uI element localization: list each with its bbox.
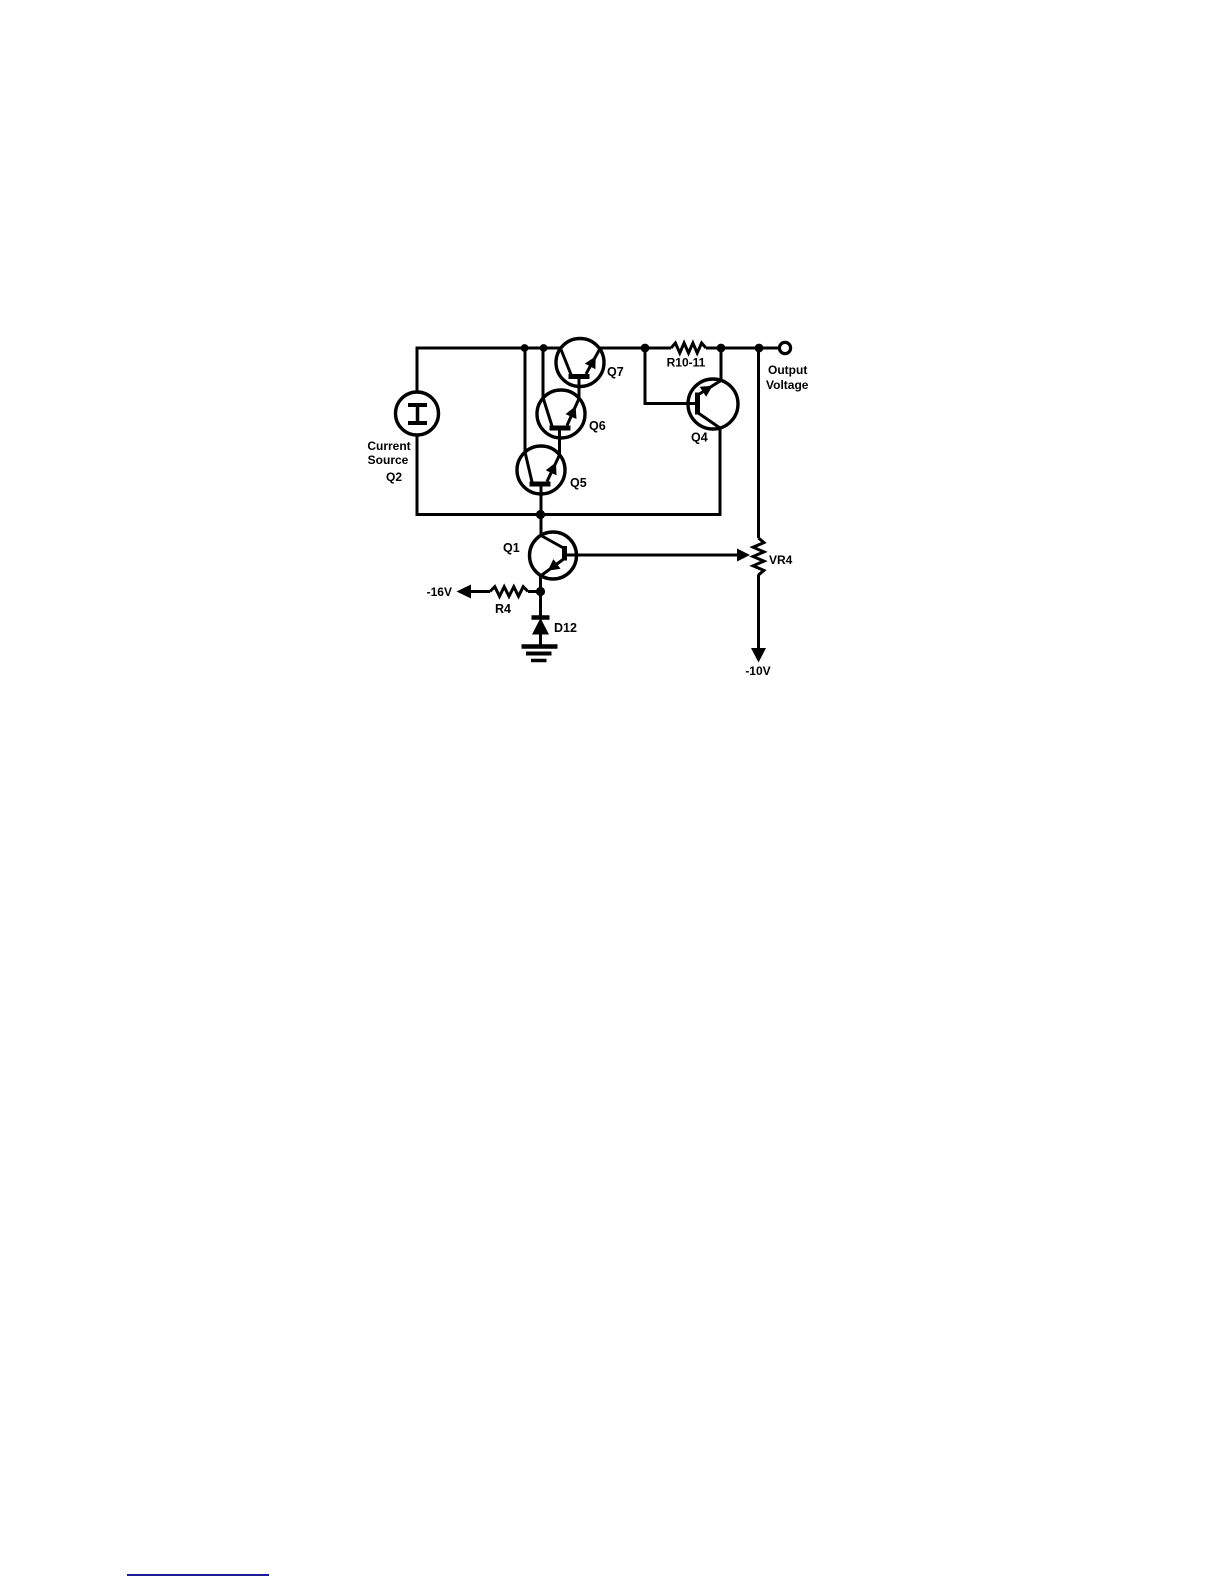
- wiper arrow: [737, 549, 750, 562]
- svg-text:-10V: -10V: [745, 664, 770, 678]
- wire vertical to Q5 collector: [524, 348, 527, 453]
- svg-text:Q6: Q6: [589, 419, 606, 433]
- wire Q4 emitter lead: [720, 348, 723, 381]
- node junction bottom bus / Q5 base: [536, 510, 545, 519]
- svg-text:VR4: VR4: [769, 553, 793, 567]
- power -10V arrow: [745, 648, 770, 678]
- power -16V arrow: [427, 585, 471, 600]
- svg-text:Q4: Q4: [691, 431, 708, 445]
- svg-text:Q5: Q5: [570, 476, 587, 490]
- wire Q5 base lead to bottom bus and Q1: [540, 484, 543, 536]
- current source Q2: [396, 392, 439, 435]
- svg-text:R4: R4: [495, 602, 511, 616]
- output terminal: [779, 342, 790, 353]
- ground: [522, 647, 558, 661]
- svg-text:Voltage: Voltage: [766, 378, 809, 392]
- transistor Q7: [556, 339, 624, 387]
- svg-text:D12: D12: [554, 621, 577, 635]
- resistor R4: [470, 587, 541, 616]
- node junction at R10-11 left: [641, 344, 650, 353]
- node junction top-left 2: [540, 344, 548, 352]
- svg-text:-16V: -16V: [427, 585, 452, 599]
- wire Q7 base lead: [578, 377, 581, 399]
- label Current Source Q2: [367, 439, 410, 484]
- wire D12 top lead: [539, 592, 542, 618]
- wire bottom bus: [416, 513, 721, 516]
- wire current source bottom lead: [416, 435, 419, 516]
- node junction at R10-11 right: [717, 344, 726, 353]
- wire Q4 collector lead: [719, 427, 722, 516]
- wire Q1 emitter lead: [539, 575, 542, 593]
- transistor Q5: [517, 446, 587, 494]
- wire D12 bottom lead: [539, 634, 542, 646]
- wire VR4 top lead: [757, 348, 760, 538]
- wire Q6 base lead: [558, 428, 561, 456]
- transistor Q1: [503, 532, 577, 579]
- wire top bus segment to output: [706, 347, 780, 350]
- transistor Q6: [537, 390, 606, 438]
- svg-text:Source: Source: [368, 453, 409, 467]
- wire VR4 bottom lead: [757, 575, 760, 650]
- label Output Voltage: [766, 363, 809, 392]
- wire Q1 base to VR4 wiper: [564, 554, 741, 557]
- resistor R10-11: [667, 343, 706, 370]
- svg-text:Q7: Q7: [607, 365, 624, 379]
- svg-text:R10-11: R10-11: [667, 356, 706, 370]
- transistor Q4: [688, 379, 738, 445]
- wire vertical to Q6 collector: [542, 348, 545, 399]
- wire current source top lead: [416, 347, 419, 393]
- wire top bus right segment: [600, 347, 671, 350]
- node junction top-left 1: [521, 344, 529, 352]
- svg-text:Current: Current: [367, 439, 410, 453]
- node junction Q1 emitter / R4 / D12: [536, 587, 545, 596]
- svg-text:Q2: Q2: [386, 470, 402, 484]
- node junction at output/VR4: [755, 344, 764, 353]
- footnote rule: [127, 1574, 269, 1576]
- wire top bus left segment: [416, 347, 563, 350]
- diode D12: [532, 618, 577, 636]
- svg-text:Output: Output: [768, 363, 807, 377]
- potentiometer VR4: [753, 538, 793, 575]
- wire Q4 base L-wire: [645, 348, 696, 404]
- svg-text:Q1: Q1: [503, 541, 520, 555]
